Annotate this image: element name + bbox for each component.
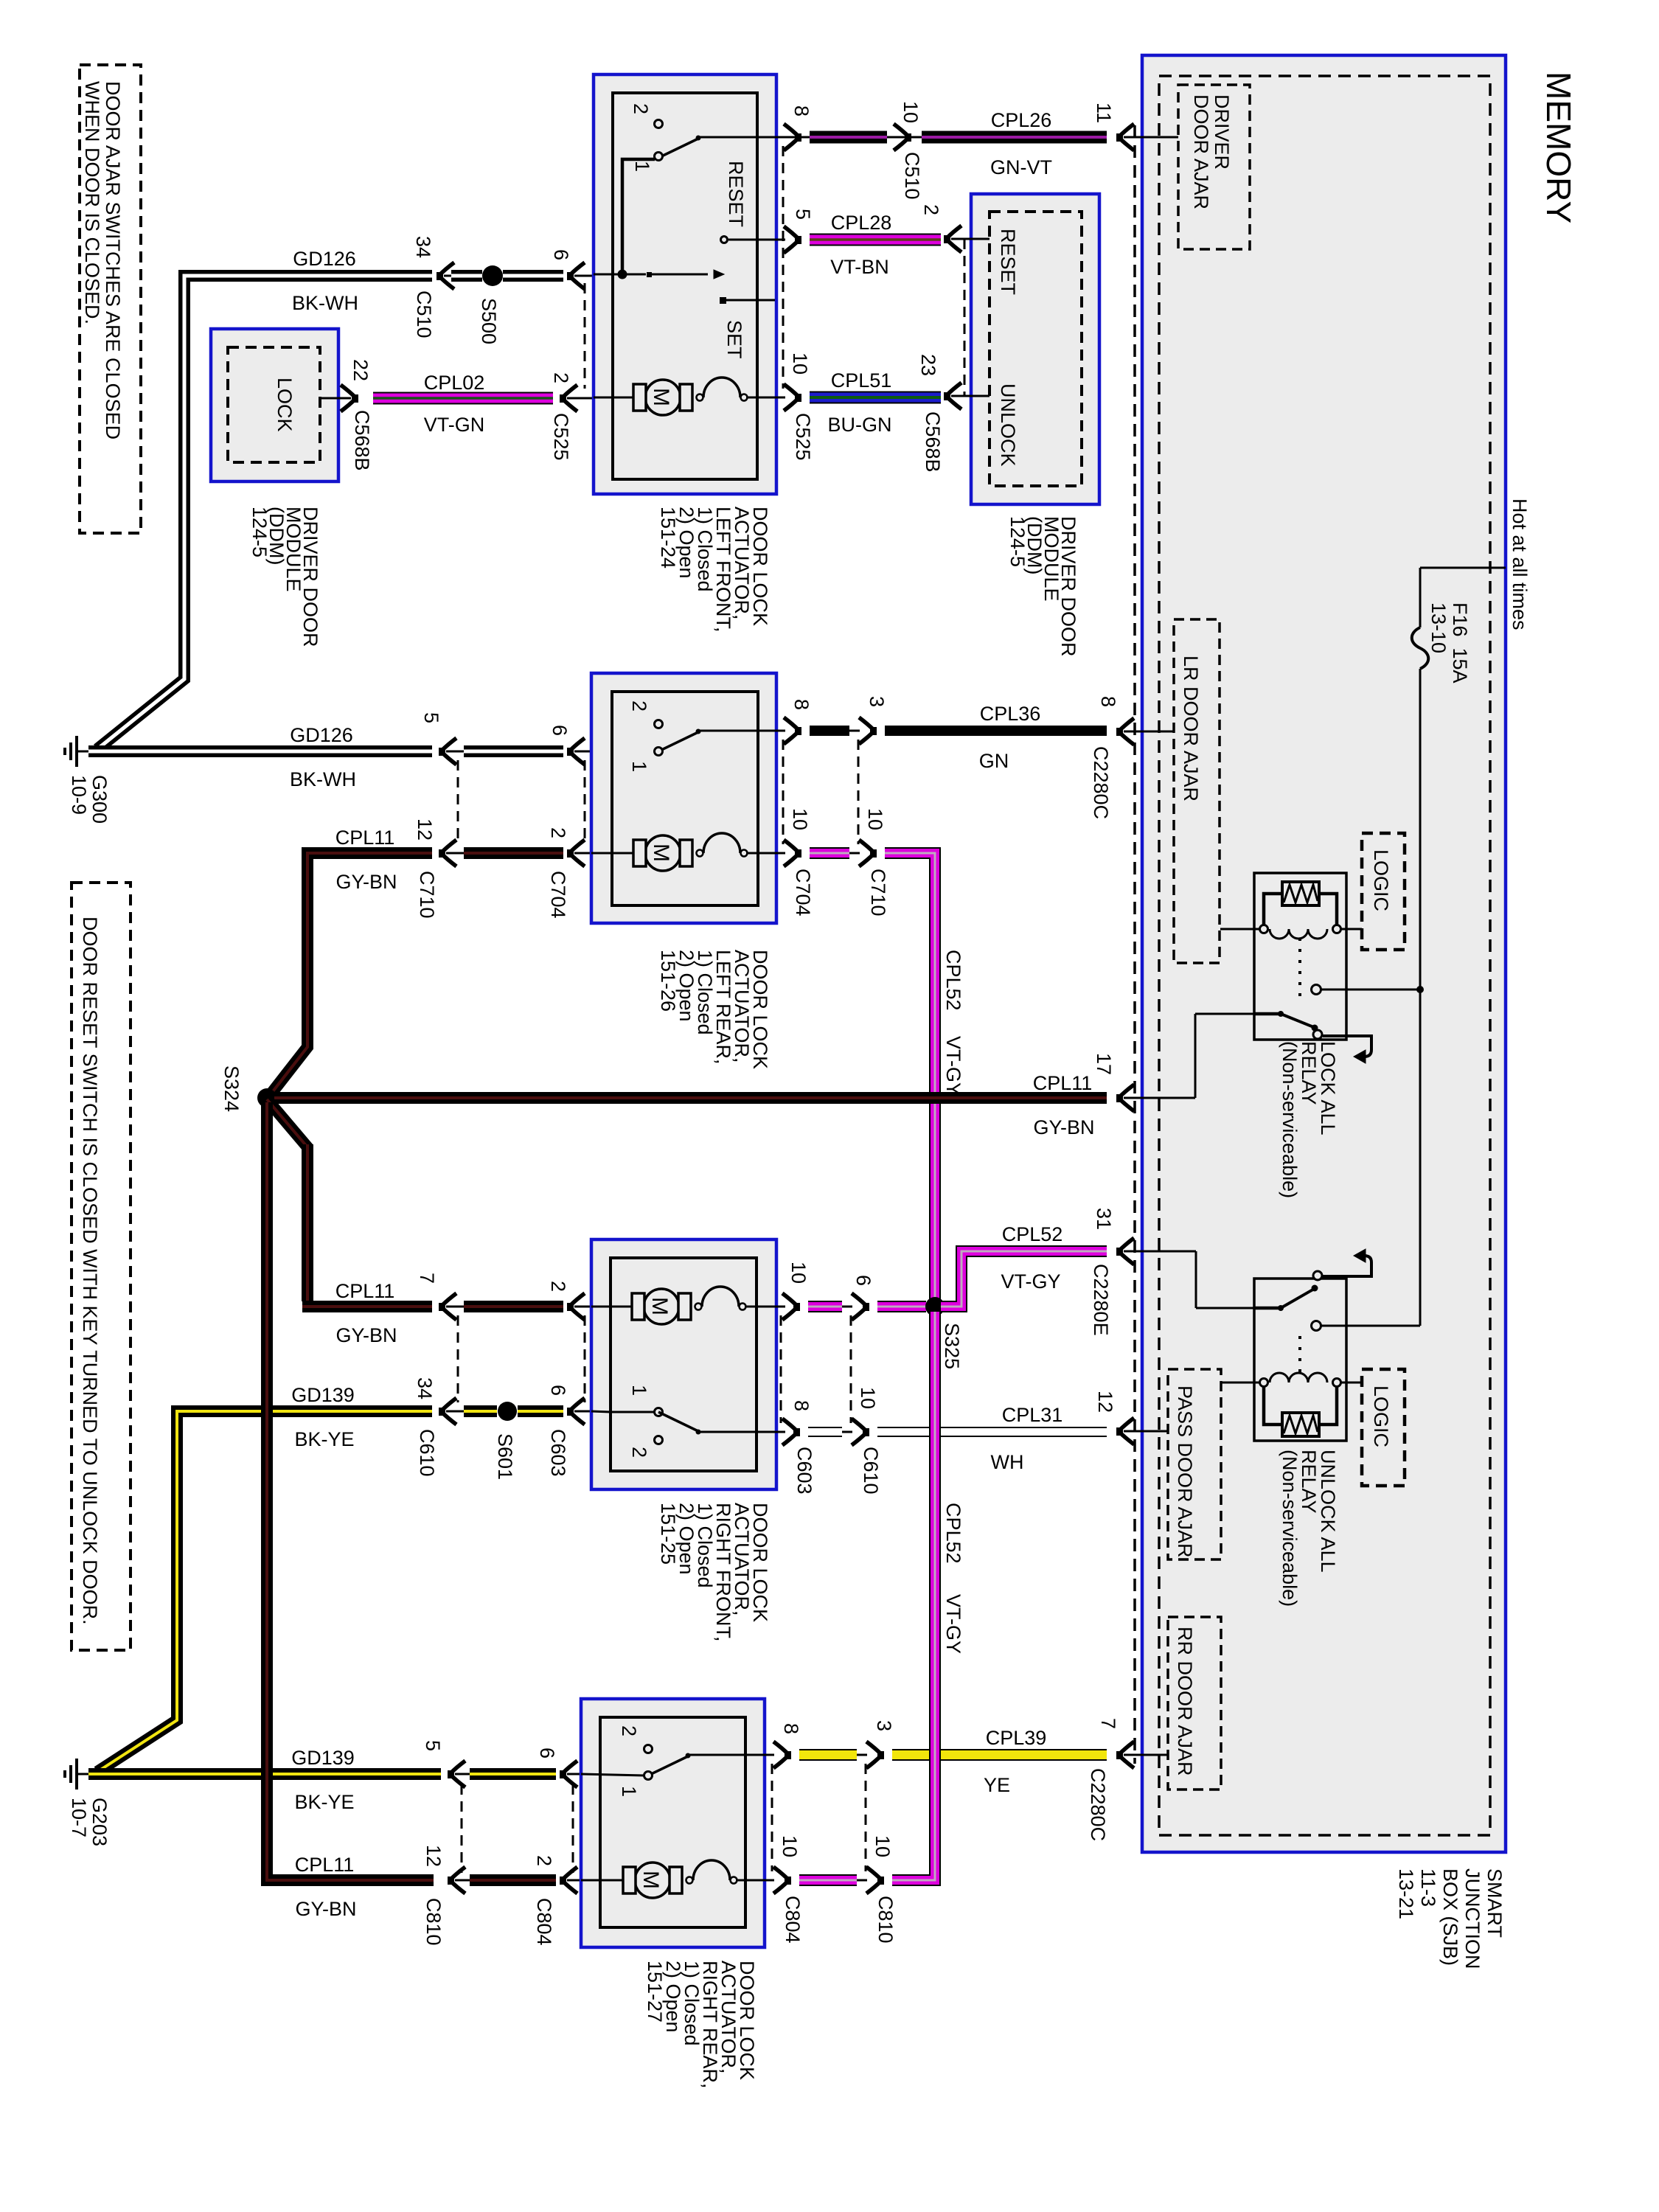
svg-text:GD126: GD126 bbox=[293, 248, 356, 270]
lock relay coil terminals bbox=[1260, 925, 1268, 933]
connector arrow pin 31 bbox=[1116, 1238, 1134, 1265]
wire GD126 BK-WH lower run bbox=[88, 745, 432, 757]
svg-text:C603: C603 bbox=[547, 1429, 569, 1477]
unlock relay coil loop bbox=[1264, 1382, 1282, 1425]
svg-text:C804: C804 bbox=[533, 1898, 555, 1946]
unlock relay NO contact bbox=[1312, 1321, 1321, 1331]
wire CPL11 segment bbox=[464, 847, 563, 859]
connector arrow pin 12 bbox=[439, 840, 456, 866]
svg-text:CPL52: CPL52 bbox=[942, 1503, 964, 1564]
svg-text:3: 3 bbox=[866, 696, 888, 707]
svg-text:C568B: C568B bbox=[351, 410, 373, 471]
svg-text:MEMORY: MEMORY bbox=[1540, 72, 1578, 223]
wire CPL11 overpaint at CPL52 crossing bbox=[922, 1092, 950, 1104]
connector arrow pin 5 (C710) bbox=[439, 738, 456, 765]
svg-text:VT-GY: VT-GY bbox=[942, 1036, 964, 1096]
svg-text:M: M bbox=[647, 1297, 672, 1315]
box LR DOOR AJAR (SJB input) bbox=[1174, 619, 1220, 963]
wire CPL52 segment (RF) bbox=[808, 1301, 842, 1312]
svg-text:10: 10 bbox=[789, 352, 811, 375]
lock relay coil inductor humps bbox=[1270, 929, 1327, 939]
svg-text:7: 7 bbox=[416, 1273, 438, 1284]
switch contact 1 (LR) bbox=[655, 748, 663, 756]
wire CPL11 S324 straight down to RR bbox=[267, 1102, 434, 1880]
actuator motor M bbox=[645, 835, 681, 871]
svg-text:LOCK: LOCK bbox=[274, 378, 296, 432]
wire CPL11 segment (C610-C603) bbox=[464, 1301, 563, 1312]
switch lever (LR) bbox=[658, 731, 700, 751]
svg-text:C2280E: C2280E bbox=[1090, 1264, 1112, 1336]
connector arrow pin 8 (driver) bbox=[784, 124, 801, 150]
svg-text:Hot at all times: Hot at all times bbox=[1509, 498, 1531, 630]
wire GD139 BK-YE upper run bbox=[97, 1411, 432, 1772]
wire CPL31 segment bbox=[808, 1427, 842, 1437]
svg-text:LR DOOR AJAR: LR DOOR AJAR bbox=[1180, 655, 1202, 801]
connector arrow pin 10 (RF motor) bbox=[782, 1293, 800, 1320]
wire CPL52 jog to SJB pin 31 bbox=[941, 1251, 1107, 1307]
svg-text:BU-GN: BU-GN bbox=[828, 414, 892, 436]
svg-text:23: 23 bbox=[917, 354, 939, 376]
svg-text:12: 12 bbox=[422, 1845, 445, 1867]
connector arrow pin 2 (RR motor) bbox=[560, 1867, 577, 1893]
svg-text:1: 1 bbox=[631, 161, 653, 172]
svg-text:12: 12 bbox=[414, 818, 436, 841]
splice S325 bbox=[925, 1297, 945, 1316]
connector arrow pin 6 (RF) bbox=[567, 1398, 585, 1425]
wire GD126 segment to splice S500 bbox=[451, 270, 482, 282]
box PASS DOOR AJAR (SJB input) bbox=[1168, 1369, 1221, 1559]
unlock relay NC contact bbox=[1313, 1271, 1322, 1280]
connector arrow pin 10 (LR motor) bbox=[784, 840, 801, 866]
splice S500 bbox=[482, 265, 503, 286]
connector C710 dashed (right) bbox=[858, 740, 860, 844]
connector arrow pin 7 (SJB) bbox=[1116, 1742, 1134, 1768]
svg-text:10: 10 bbox=[779, 1835, 801, 1857]
connector arrow pin 2 (DDM reset) bbox=[944, 226, 961, 252]
wire pin 31 into SJB to unlock relay bbox=[1124, 1251, 1196, 1253]
wire CPL39 YE to SJB bbox=[892, 1749, 1107, 1761]
connector arrow pin 8 (RF) bbox=[782, 1419, 800, 1445]
unlock relay coil inductor humps bbox=[1270, 1373, 1327, 1382]
connector arrow pin 2 (C525) bbox=[560, 385, 577, 411]
svg-text:GY-BN: GY-BN bbox=[295, 1898, 356, 1920]
connector arrow pin 17 bbox=[1116, 1085, 1134, 1111]
svg-text:6: 6 bbox=[547, 1385, 569, 1396]
svg-text:GN-VT: GN-VT bbox=[990, 156, 1052, 178]
svg-text:2: 2 bbox=[618, 1725, 640, 1736]
ground G300 bbox=[77, 751, 90, 753]
wire CPL52 VT-GY below S325 to RR bbox=[892, 1312, 935, 1880]
connector arrow pin 10 (RF C610) bbox=[852, 1419, 869, 1445]
splice S324 bbox=[257, 1088, 276, 1107]
wire CPL11 S324 to SJB pin 17 bbox=[274, 1092, 1107, 1104]
door lock actuator left rear box bbox=[591, 673, 776, 923]
svg-text:12: 12 bbox=[1094, 1391, 1116, 1413]
actuator motor M bbox=[645, 380, 681, 415]
svg-text:10-9: 10-9 bbox=[68, 775, 90, 815]
motor brush arc bbox=[697, 394, 703, 401]
wire GD126 segment C710-C704 bbox=[464, 745, 563, 757]
wire set output bbox=[726, 299, 775, 302]
svg-text:10: 10 bbox=[900, 101, 922, 123]
svg-text:6: 6 bbox=[536, 1747, 558, 1759]
wire CPL26 segment bbox=[810, 131, 887, 144]
svg-text:CPL02: CPL02 bbox=[424, 372, 485, 394]
svg-text:C810: C810 bbox=[874, 1896, 897, 1944]
wire unlock relay coil to logic bbox=[1341, 1382, 1362, 1384]
svg-text:C603: C603 bbox=[793, 1447, 815, 1495]
ground G203 bbox=[77, 1773, 90, 1775]
lock relay coil loop bbox=[1264, 894, 1282, 929]
connector C704 dashed bbox=[584, 760, 586, 845]
lock relay coil resistor bbox=[1282, 882, 1319, 905]
wire lever to pin 8 bbox=[700, 136, 776, 139]
connector C710 dashed bbox=[457, 760, 459, 845]
svg-text:C525: C525 bbox=[550, 413, 572, 461]
lock relay NC contact bbox=[1313, 1030, 1322, 1039]
svg-text:S500: S500 bbox=[478, 298, 500, 344]
svg-text:VT-GY: VT-GY bbox=[942, 1594, 964, 1654]
svg-text:CPL11: CPL11 bbox=[1033, 1072, 1093, 1094]
svg-text:GY-BN: GY-BN bbox=[335, 1324, 397, 1346]
svg-text:VT-GY: VT-GY bbox=[1001, 1270, 1060, 1293]
svg-text:8: 8 bbox=[790, 105, 813, 116]
wire CPL26 GN-VT to SJB bbox=[922, 131, 1107, 144]
wire CPL52 segment (RR) bbox=[799, 1874, 857, 1886]
svg-text:CPL52: CPL52 bbox=[942, 950, 964, 1011]
svg-text:WH: WH bbox=[991, 1451, 1024, 1473]
svg-text:2: 2 bbox=[628, 1447, 650, 1458]
wire unlock relay coil to pass door ajar bbox=[1221, 1382, 1259, 1384]
svg-text:1: 1 bbox=[628, 1385, 650, 1396]
wire pin 12 to pass door ajar box bbox=[1124, 1430, 1168, 1433]
wire CPL11 GY-BN from LR pin 12 bbox=[268, 853, 432, 1097]
connector arrow pin 10 C810 (RR) bbox=[866, 1867, 884, 1893]
note box: door reset switch bbox=[72, 883, 131, 1650]
svg-text:CPL31: CPL31 bbox=[1002, 1404, 1063, 1426]
SJB inner dashed boundary bbox=[1159, 76, 1490, 1835]
connector C810 dashed (right) bbox=[865, 1764, 867, 1871]
box RR DOOR AJAR (SJB input) bbox=[1168, 1617, 1221, 1790]
unlock relay coil terminals bbox=[1260, 1379, 1268, 1387]
wire CPL11 vertical overpaint (crossings) bbox=[261, 1401, 273, 1423]
svg-text:GY-BN: GY-BN bbox=[335, 871, 397, 893]
svg-text:8: 8 bbox=[790, 699, 813, 710]
connector C2280 dashed line bbox=[1133, 125, 1136, 1764]
svg-text:1: 1 bbox=[618, 1786, 640, 1797]
svg-text:2: 2 bbox=[920, 204, 942, 215]
wire CPL52 VT-GY from LR down to S325 bbox=[885, 853, 935, 1307]
svg-text:C704: C704 bbox=[792, 869, 814, 917]
svg-text:C2280C: C2280C bbox=[1090, 746, 1112, 819]
svg-text:10: 10 bbox=[857, 1387, 879, 1409]
lock all relay box bbox=[1254, 873, 1346, 1040]
actuator motor M bbox=[644, 1289, 679, 1324]
svg-text:LOGIC: LOGIC bbox=[1370, 849, 1392, 911]
connector arrow pin 10 C710 (LR) bbox=[859, 840, 877, 866]
wire B+ feed from SJB edge to fuse bbox=[1420, 567, 1506, 569]
svg-text:C525: C525 bbox=[792, 413, 814, 461]
wire CPL52 segment (LR) bbox=[810, 847, 849, 859]
svg-text:6: 6 bbox=[852, 1275, 874, 1286]
door lock actuator right rear box bbox=[581, 1699, 765, 1947]
svg-text:C510: C510 bbox=[413, 291, 435, 338]
unlock relay coil resistor bbox=[1282, 1413, 1319, 1436]
svg-text:M: M bbox=[649, 388, 673, 406]
svg-text:C710: C710 bbox=[416, 871, 438, 919]
wire lock relay NO contact to B+ bbox=[1321, 989, 1420, 991]
connector arrow pin 7 bbox=[439, 1293, 456, 1320]
svg-text:22: 22 bbox=[349, 359, 372, 381]
wire lever to pin 8 (LR) bbox=[700, 730, 785, 732]
lock relay armature dotted link bbox=[1298, 938, 1301, 997]
motor brush arc bbox=[686, 1877, 693, 1884]
svg-text:CPL11: CPL11 bbox=[295, 1854, 355, 1876]
connector arrow pin 34 (C510) bbox=[437, 262, 454, 289]
logic box (lock) bbox=[1362, 833, 1405, 950]
connector arrow pin 2 (RF motor) bbox=[567, 1293, 585, 1320]
switch lever (RR) bbox=[648, 1756, 689, 1775]
svg-text:8: 8 bbox=[1097, 696, 1119, 707]
svg-text:CPL36: CPL36 bbox=[980, 703, 1041, 725]
unlock relay armature dotted link bbox=[1298, 1336, 1301, 1374]
wire B+ from fuse to relays bbox=[1419, 669, 1422, 990]
unlock all relay box bbox=[1254, 1279, 1346, 1441]
splice S601 bbox=[498, 1402, 517, 1421]
svg-text:10-7: 10-7 bbox=[68, 1798, 90, 1837]
wire CPL11 S324 down-branch to RF bbox=[267, 1099, 308, 1148]
svg-text:DOOR RESET SWITCH IS CLOSED WI: DOOR RESET SWITCH IS CLOSED WITH KEY TUR… bbox=[79, 917, 101, 1625]
wire pin6 to contact1 (RF) bbox=[611, 1411, 655, 1413]
svg-text:5: 5 bbox=[422, 1740, 444, 1751]
svg-text:C510: C510 bbox=[901, 152, 923, 200]
wire pin6 to contact1 (RR) bbox=[581, 1774, 644, 1775]
switch SET contact bbox=[720, 297, 726, 304]
connector arrow pin 23 (DDM unlock) bbox=[944, 383, 961, 409]
connector arrow pin 6 bbox=[567, 262, 585, 289]
svg-text:C2280C: C2280C bbox=[1087, 1768, 1109, 1841]
svg-text:6: 6 bbox=[549, 725, 571, 736]
connector arrow pin 10 (driver motor) bbox=[784, 384, 801, 411]
connector arrow pin 22 bbox=[341, 385, 358, 411]
connector C704 dashed (right) bbox=[782, 740, 785, 844]
svg-text:CPL11: CPL11 bbox=[335, 827, 395, 849]
svg-text:8: 8 bbox=[780, 1723, 802, 1734]
svg-text:GN: GN bbox=[979, 750, 1009, 772]
svg-text:10: 10 bbox=[789, 808, 811, 830]
connector arrow pin 10 C510 bbox=[894, 124, 911, 150]
logic box (unlock) bbox=[1362, 1369, 1405, 1486]
svg-text:C568B: C568B bbox=[922, 411, 944, 473]
wire unlock relay NO contact to B+ bbox=[1321, 1325, 1420, 1327]
svg-text:2: 2 bbox=[533, 1855, 555, 1866]
switch RESET contact bbox=[721, 237, 728, 243]
svg-text:31: 31 bbox=[1093, 1208, 1115, 1230]
wire CPL36 segment bbox=[810, 726, 849, 736]
connector C603 dashed (right) bbox=[780, 1315, 782, 1423]
connector arrow pin 8 (RR) bbox=[773, 1742, 791, 1768]
svg-text:2: 2 bbox=[547, 1281, 569, 1292]
connector arrow pin 3 (RR) bbox=[866, 1742, 884, 1768]
LOCK inner dashed bbox=[228, 347, 320, 462]
unlock relay output hook arrow bbox=[1323, 1256, 1371, 1276]
connector arrow pin 6 (RF C610) bbox=[852, 1293, 869, 1320]
connector C525 dashed (left) bbox=[584, 283, 586, 389]
svg-text:17: 17 bbox=[1093, 1053, 1115, 1075]
wire CPL28 VT-BN bbox=[810, 234, 941, 246]
driver door module (top) box bbox=[971, 194, 1099, 504]
motor brush arc bbox=[695, 1304, 702, 1310]
wire CPL36 GN to SJB bbox=[885, 726, 1107, 736]
svg-text:G203: G203 bbox=[88, 1798, 111, 1846]
connector arrow pin 10 (RR motor) bbox=[773, 1867, 791, 1893]
svg-text:C610: C610 bbox=[416, 1429, 438, 1477]
connector arrow pin 11 bbox=[1116, 124, 1134, 150]
svg-text:SET: SET bbox=[723, 320, 745, 359]
wire unlock into DDM bbox=[951, 395, 990, 397]
svg-text:6: 6 bbox=[550, 249, 572, 260]
wire reset into DDM bbox=[951, 238, 990, 240]
door lock actuator left front box bbox=[594, 74, 776, 494]
wire lock relay coil to LR door ajar bbox=[1220, 928, 1259, 931]
connector arrow pin 12 (RR) bbox=[448, 1867, 465, 1893]
svg-text:GY-BN: GY-BN bbox=[1033, 1116, 1094, 1138]
svg-text:2: 2 bbox=[547, 827, 569, 838]
svg-text:8: 8 bbox=[790, 1400, 813, 1411]
svg-text:VT-BN: VT-BN bbox=[830, 256, 889, 278]
svg-text:C710: C710 bbox=[867, 869, 889, 917]
svg-text:RESET: RESET bbox=[725, 161, 747, 227]
svg-text:C804: C804 bbox=[782, 1896, 804, 1944]
wire GD139 segment to S601 bbox=[464, 1405, 497, 1417]
svg-text:PASS DOOR AJAR: PASS DOOR AJAR bbox=[1174, 1385, 1196, 1558]
svg-text:M: M bbox=[639, 1871, 663, 1889]
svg-text:VT-GN: VT-GN bbox=[424, 414, 485, 436]
LOCK switch box (driver door module part) bbox=[211, 329, 338, 481]
connector arrow pin 8 (LR) bbox=[784, 717, 801, 744]
svg-text:2: 2 bbox=[550, 372, 572, 383]
svg-text:CPL51: CPL51 bbox=[831, 369, 892, 392]
switch contact 2 (RF) bbox=[655, 1436, 663, 1444]
DDM inner dashed bbox=[990, 212, 1082, 486]
svg-text:5: 5 bbox=[792, 209, 814, 220]
connector C610 dashed (right) bbox=[850, 1315, 852, 1423]
svg-text:7: 7 bbox=[1097, 1718, 1119, 1729]
svg-text:YE: YE bbox=[984, 1774, 1010, 1796]
wire CPL02 VT-GN bbox=[373, 392, 553, 405]
svg-text:C810: C810 bbox=[422, 1898, 445, 1946]
svg-text:5: 5 bbox=[420, 712, 442, 723]
door lock actuator right front box bbox=[591, 1239, 776, 1489]
connector arrow pin 6 (RR) bbox=[560, 1761, 577, 1787]
switch lever (RF) bbox=[658, 1412, 700, 1432]
connector C568B dashed line bbox=[964, 239, 966, 396]
lock relay armature bbox=[1254, 1012, 1281, 1016]
fuse F16 15A bbox=[1412, 627, 1429, 669]
wire pin 7 to RR door ajar box bbox=[1124, 1754, 1168, 1756]
switch lever (driver) bbox=[658, 138, 700, 158]
connector arrow pin 3 (LR) bbox=[859, 717, 877, 744]
svg-text:CPL52: CPL52 bbox=[1002, 1223, 1063, 1245]
wire lever to pin 8 (RR) bbox=[689, 1754, 774, 1756]
svg-text:3: 3 bbox=[873, 1720, 895, 1731]
motor brush arc bbox=[697, 850, 703, 857]
wire GD139 segment RR bbox=[470, 1768, 556, 1780]
svg-text:2: 2 bbox=[628, 700, 650, 712]
svg-text:S601: S601 bbox=[494, 1433, 516, 1480]
connector arrow pin 8 (SJB) bbox=[1116, 718, 1134, 745]
svg-text:GD139: GD139 bbox=[291, 1747, 355, 1769]
svg-text:2: 2 bbox=[630, 103, 652, 114]
svg-text:RESET: RESET bbox=[997, 229, 1019, 295]
connector C804 dashed (right) bbox=[771, 1764, 773, 1871]
pin 6 line inside driver box bbox=[594, 274, 622, 276]
wire lock relay coil to logic bbox=[1341, 928, 1362, 931]
svg-text:UNLOCK: UNLOCK bbox=[997, 383, 1019, 467]
wire pin 8 to LR door ajar box bbox=[1124, 731, 1174, 733]
svg-text:G300: G300 bbox=[88, 775, 111, 824]
lock relay NO contact bbox=[1312, 985, 1321, 995]
connector arrow pin 6 (C704) bbox=[567, 738, 585, 765]
svg-text:10: 10 bbox=[787, 1262, 810, 1284]
wire CPL39 segment bbox=[799, 1749, 857, 1761]
wire lock box to CPL02 bbox=[320, 397, 351, 400]
svg-text:BK-WH: BK-WH bbox=[292, 292, 358, 314]
switch contact 1 (driver) bbox=[655, 153, 663, 161]
svg-text:GD139: GD139 bbox=[291, 1384, 355, 1406]
connector arrow pin 5 (driver) bbox=[784, 226, 801, 253]
wire reset output bbox=[728, 239, 776, 241]
svg-text:C610: C610 bbox=[860, 1447, 882, 1495]
svg-text:S324: S324 bbox=[220, 1065, 243, 1112]
svg-text:10: 10 bbox=[872, 1835, 894, 1857]
svg-text:BK-YE: BK-YE bbox=[294, 1428, 354, 1450]
connector C603 dashed (RF left) bbox=[584, 1315, 586, 1402]
connector C804 dashed (RR left) bbox=[572, 1784, 574, 1873]
box DRIVER DOOR AJAR (SJB input) bbox=[1178, 85, 1250, 249]
svg-text:LOGIC: LOGIC bbox=[1370, 1385, 1392, 1447]
note box: door ajar switches bbox=[80, 65, 141, 533]
wire pin 11 to driver door ajar box bbox=[1124, 136, 1178, 139]
lock relay output hook arrow bbox=[1323, 1036, 1371, 1057]
wire GD126 BK-WH upper run bbox=[97, 276, 432, 749]
wire lever to pin 8 (RF) bbox=[700, 1431, 785, 1433]
switch wire contact1 to pin6 junction bbox=[622, 159, 655, 271]
connector C810 dashed (RR left) bbox=[461, 1784, 463, 1873]
svg-text:M: M bbox=[649, 844, 673, 862]
wire CPL51 BU-GN bbox=[810, 392, 941, 404]
connector arrow pin 34 (GD139) bbox=[439, 1398, 456, 1425]
pin 6 junction dot bbox=[618, 270, 627, 279]
wire GD139 BK-YE lower run bbox=[88, 1768, 441, 1780]
connector C610 dashed (RF left) bbox=[457, 1315, 459, 1402]
svg-text:34: 34 bbox=[412, 236, 434, 258]
wire CPL11 segment RR bbox=[470, 1874, 556, 1886]
svg-text:BK-YE: BK-YE bbox=[294, 1791, 354, 1813]
connector arrow pin 2 (LR motor) bbox=[567, 840, 585, 866]
wire CPL52 RF to S325 bbox=[877, 1301, 926, 1312]
svg-text:1: 1 bbox=[628, 761, 650, 772]
unlock relay armature bbox=[1254, 1307, 1281, 1310]
connector C525 dashed (right) bbox=[782, 146, 785, 389]
svg-text:10: 10 bbox=[864, 808, 886, 830]
svg-text:34: 34 bbox=[414, 1377, 436, 1399]
svg-text:11: 11 bbox=[1093, 102, 1115, 123]
svg-text:GD126: GD126 bbox=[290, 724, 353, 746]
connector arrow pin 5 (RR) bbox=[448, 1761, 465, 1787]
svg-text:S325: S325 bbox=[941, 1323, 963, 1369]
connector arrow pin 12 (SJB) bbox=[1116, 1418, 1134, 1444]
